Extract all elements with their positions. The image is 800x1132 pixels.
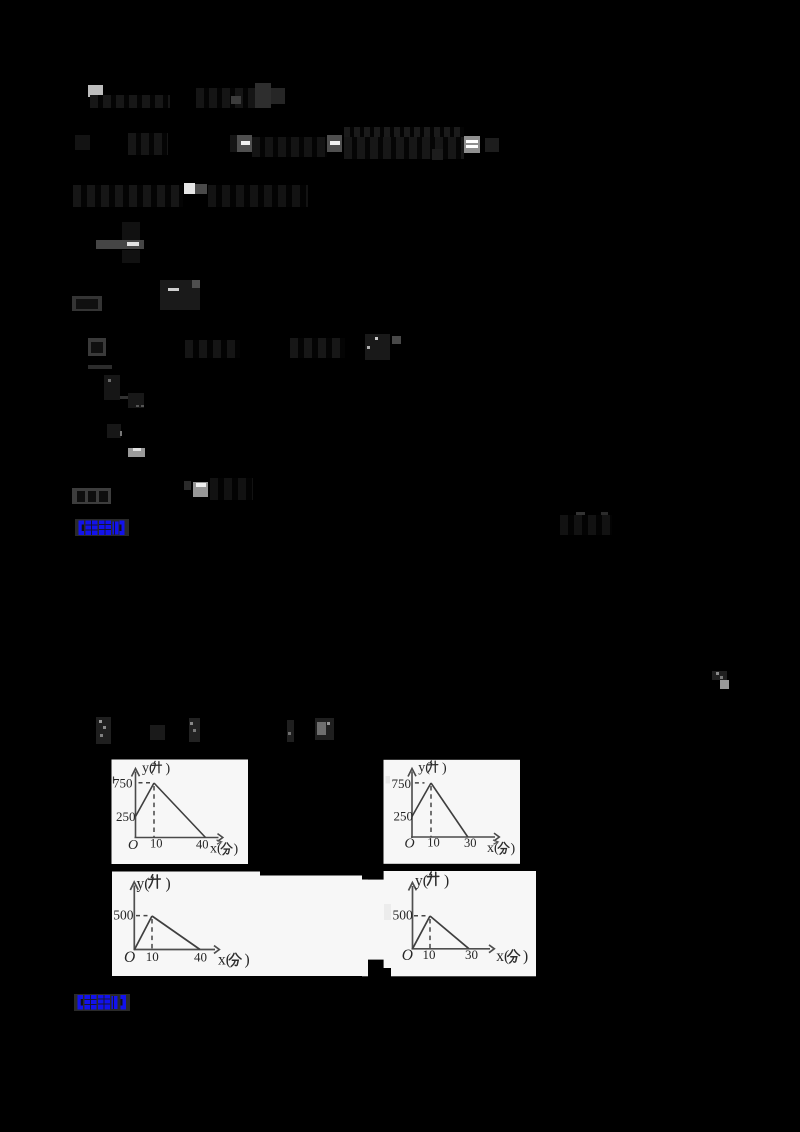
svg-text:500: 500 [393, 908, 414, 923]
right faint text [576, 512, 585, 522]
svg-text:y(: y( [142, 761, 154, 776]
svg-text:10: 10 [150, 837, 163, 851]
line 7 [72, 488, 111, 504]
svg-text:30: 30 [464, 836, 477, 850]
svg-text:): ) [166, 762, 171, 777]
blue label 1 [79, 521, 125, 536]
svg-text:250: 250 [116, 809, 136, 824]
svg-text:10: 10 [423, 947, 436, 962]
graph box D (bottom-right) [384, 871, 536, 976]
line 3 [73, 185, 183, 207]
graph box B (top-right) [384, 760, 521, 864]
svg-text:10: 10 [146, 949, 159, 964]
svg-text:O: O [402, 947, 413, 964]
line 2 [75, 135, 90, 150]
svg-text:O: O [124, 949, 135, 966]
svg-text:40: 40 [196, 838, 209, 852]
svg-text:10: 10 [427, 836, 440, 850]
svg-text:40: 40 [194, 950, 207, 965]
line 8 [96, 717, 111, 744]
graph box C (bottom-left, wide) [112, 872, 384, 977]
blue label 2 panel [74, 994, 130, 1011]
svg-text:): ) [442, 761, 447, 776]
svg-text:x(: x( [487, 841, 499, 856]
svg-text:30: 30 [465, 947, 478, 962]
line 4 fraction [122, 222, 140, 240]
svg-text:): ) [166, 876, 171, 893]
svg-text:): ) [444, 873, 449, 890]
svg-text:): ) [234, 842, 239, 857]
svg-text:500: 500 [113, 908, 134, 923]
line 6 [88, 338, 106, 356]
blue label 1 panel [75, 519, 129, 536]
svg-text:): ) [523, 948, 528, 965]
svg-text:750: 750 [392, 776, 412, 791]
svg-text:750: 750 [113, 776, 133, 791]
svg-text:y(: y( [418, 761, 430, 776]
svg-text:): ) [245, 952, 250, 969]
blue label 2 [78, 995, 127, 1010]
svg-text:x(: x( [210, 842, 222, 857]
left fraction stack [88, 365, 112, 369]
svg-text:y(: y( [415, 873, 428, 890]
svg-text:): ) [511, 842, 516, 857]
small mark right middle [712, 671, 727, 680]
graph box A (top-left) [112, 760, 249, 865]
faint scanned text blobs, line 1 [88, 85, 103, 97]
svg-text:O: O [128, 838, 138, 853]
svg-text:O: O [405, 837, 415, 852]
svg-text:250: 250 [394, 809, 414, 824]
svg-text:y(: y( [137, 876, 150, 893]
line 5 [72, 296, 102, 311]
